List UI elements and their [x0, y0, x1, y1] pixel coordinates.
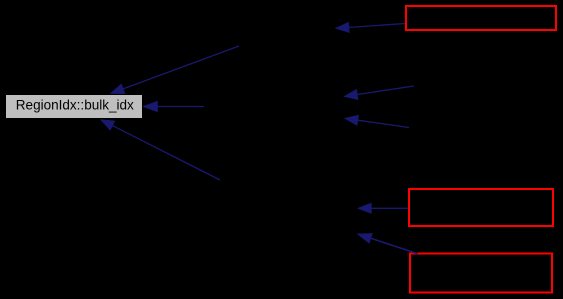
edge: hidden node B -> RegionIdx::bulk_idx (into right edge) [143, 101, 204, 112]
svg-text:RegionIdx::bulk_idx: RegionIdx::bulk_idx [16, 97, 134, 113]
edge: hidden node E -> hidden node B (lower) [345, 115, 410, 127]
edge: hidden node D -> hidden node B (upper) [344, 86, 414, 100]
node: red-outlined box 1 (top right, label black/invisible) [406, 6, 556, 30]
edge: hidden node A -> RegionIdx::bulk_idx (into top edge) [111, 46, 240, 94]
edge: red node 3 -> hidden node C (drawn over box corner) [357, 233, 417, 253]
edge: red node 1 -> hidden node A [336, 22, 406, 32]
node: RegionIdx::bulk_idx (current node, gray fill, black border) [6, 95, 143, 119]
edge: hidden node C -> RegionIdx::bulk_idx (into bottom edge) [101, 120, 221, 181]
edge: red node 2 -> hidden node C [358, 203, 408, 213]
node: red-outlined box 3 (bottom right, label black/invisible) [410, 254, 552, 293]
node: red-outlined box 2 (middle right, label black/invisible) [409, 189, 553, 226]
